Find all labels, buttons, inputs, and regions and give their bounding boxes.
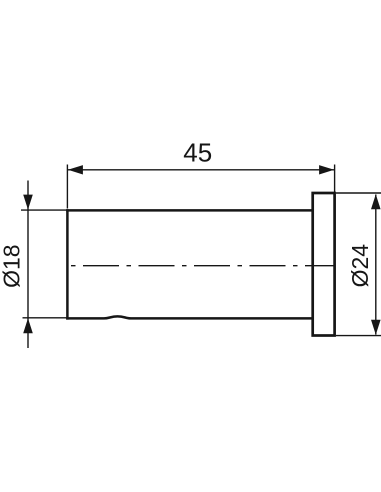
dimension Ø24: lower arrowhead (pointing down): [371, 320, 381, 335]
dimension Ø24: dimension line: [375, 195, 377, 335]
cylinder body bottom edge with small bump: [66, 316, 313, 318]
cylinder left edge: [66, 209, 69, 319]
dimension Ø24: bottom extension line: [336, 335, 381, 337]
dimension 45: right extension line: [334, 165, 336, 193]
dimension Ø18: dimension line: [27, 181, 29, 349]
dimension 45: left extension line: [66, 165, 68, 209]
dimension 45: right arrowhead: [319, 165, 334, 174]
dimension Ø18: top extension line: [21, 209, 67, 211]
dimension Ø18: lower arrowhead (outside, pointing up): [23, 318, 33, 333]
dimension Ø24: top extension line: [336, 192, 381, 194]
flange outline: [313, 193, 335, 336]
dimension Ø24: upper arrowhead (pointing up): [371, 194, 381, 209]
dimension Ø18: upper arrowhead (outside, pointing down): [23, 195, 33, 210]
svg-text:Ø24: Ø24: [347, 244, 373, 288]
dimension 45: left arrowhead: [68, 165, 83, 174]
dimension 45: dimension line: [67, 169, 334, 171]
cylinder body top edge: [66, 209, 313, 212]
centerline (dash-dot axis): [71, 265, 334, 267]
svg-text:Ø18: Ø18: [0, 244, 25, 287]
dimension Ø18: bottom extension line: [23, 317, 67, 319]
svg-text:45: 45: [183, 137, 212, 167]
